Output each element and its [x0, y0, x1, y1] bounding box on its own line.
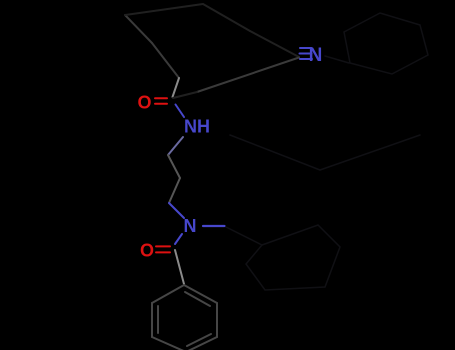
ring A top: left edge upper: [125, 15, 152, 43]
ghost wide V middle right arm: [320, 135, 420, 170]
C1 to NH bond: [176, 105, 185, 118]
phenyl top-left edge: [152, 285, 184, 303]
N2 methyl bond: [203, 225, 225, 227]
phenyl inner double bottom-right: [187, 334, 211, 346]
phenyl bottom-right edge: [186, 337, 217, 350]
phenyl right edge: [216, 303, 218, 337]
C2 to phenyl top vertex (bright): [175, 250, 184, 284]
ring A top: left edge lower: [152, 43, 179, 78]
phenyl inner double top-right: [185, 292, 210, 306]
chain C3-C4: [168, 155, 180, 178]
chain C5 to N2: [169, 203, 184, 218]
benzoyl C=O double bond: [156, 245, 170, 247]
NH to chain C3: [168, 137, 183, 155]
short link to carbonyl C1: [173, 92, 197, 98]
ghost bond N2-methyl extension to ring R: [226, 227, 262, 245]
ghost link from nitrile N to ghost hexagon T: [325, 56, 349, 63]
phenyl inner double left: [157, 306, 159, 333]
chain C4-C5: [169, 178, 180, 203]
svg-text:N: N: [309, 45, 323, 66]
svg-text:O: O: [137, 93, 151, 113]
amide C=O double bond: [155, 97, 167, 99]
ghost hexagon R right-middle: [246, 225, 340, 290]
N2 to benzoyl C2: [175, 234, 182, 244]
svg-text:O: O: [140, 241, 154, 261]
phenyl left edge: [151, 303, 153, 337]
ghost wide V middle left arm: [230, 135, 320, 170]
ring A right vertex to nitrile C: [250, 31, 299, 57]
long diagonal closing edge: [197, 58, 299, 93]
phenyl ring C edge top-right: [184, 285, 217, 303]
ring A bond into carbonyl C1 (bright): [173, 78, 180, 97]
nitrile triple bond: [300, 47, 312, 49]
ghost hexagon T top-right: [344, 13, 428, 74]
svg-text:N: N: [184, 216, 197, 236]
phenyl bottom-left edge: [152, 337, 186, 350]
ring A upper right edge: [203, 4, 250, 31]
svg-text:NH: NH: [184, 117, 210, 137]
ring A top edge left: [125, 4, 203, 15]
